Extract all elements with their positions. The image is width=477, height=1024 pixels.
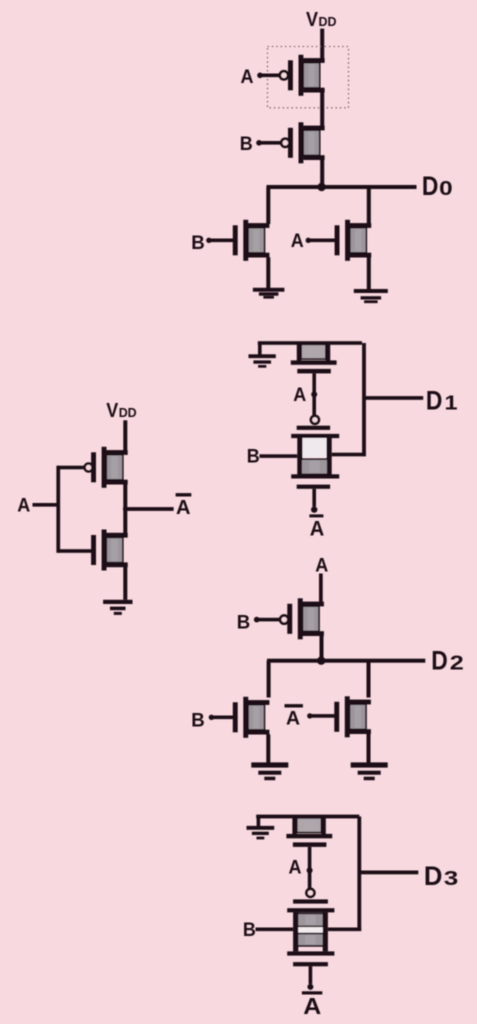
pmos gate bubble (transmission gate D1) xyxy=(311,416,319,424)
wire B to Q2 gate xyxy=(260,141,281,145)
svg-text:2: 2 xyxy=(450,653,464,675)
output label Abar xyxy=(176,497,191,519)
transmission gate TG1 right contact xyxy=(327,438,332,477)
input label B (D1) xyxy=(247,447,260,468)
ground (below Q3) xyxy=(253,288,285,299)
inverter pmos gate bubble xyxy=(85,464,93,472)
wire Q4 source to ground xyxy=(367,257,371,289)
wire A to PMOS Q8 xyxy=(319,574,323,602)
transmission gate TG2 right contact xyxy=(323,912,328,951)
wire A to Q4 gate xyxy=(309,239,335,243)
junction dot (A on D1 gate wire) xyxy=(311,391,317,397)
transmission gate TG2 top channel bar xyxy=(287,908,334,912)
power label VDD (inverter) xyxy=(106,400,137,422)
svg-text:A: A xyxy=(291,231,304,252)
svg-text:D: D xyxy=(422,171,439,201)
wire VDD to PMOS Q1 xyxy=(320,29,324,59)
svg-text:D: D xyxy=(424,861,443,891)
ground riser (D3) xyxy=(257,817,261,827)
nmos Q9 (parallel NMOS, input B) xyxy=(233,697,270,738)
wire Q6 source to ground xyxy=(123,567,127,600)
svg-text:D: D xyxy=(431,646,448,676)
wire B to Q8 gate xyxy=(258,618,280,622)
junction dot (A on D3 gate wire) xyxy=(307,867,313,873)
output label Abar overbar xyxy=(176,493,192,496)
wire Q7 gate to A xyxy=(312,373,316,415)
pmos Q8 input dot xyxy=(254,617,260,623)
output label D2 xyxy=(431,646,464,676)
wire Q2 to node D0 xyxy=(320,160,324,187)
wire input stem to NMOS gate xyxy=(58,549,93,553)
svg-text:A: A xyxy=(241,67,254,88)
nmos Q10 input label Abar xyxy=(286,708,300,729)
D3 vertical wire xyxy=(357,817,361,932)
transmission gate TG1 gray channel box xyxy=(301,459,328,474)
svg-text:V: V xyxy=(306,9,319,31)
pmos Q8 (D2, input B) xyxy=(287,598,324,639)
transmission gate TG1 top channel bar xyxy=(291,434,339,438)
svg-text:A: A xyxy=(286,708,300,729)
transmission gate TG1 bottom channel bar xyxy=(291,474,339,478)
svg-text:V: V xyxy=(106,400,119,422)
output label D0 xyxy=(422,171,453,201)
pmos gate bubble (transmission gate D3) xyxy=(306,889,314,897)
input stem (vertical) xyxy=(56,466,60,553)
transmission gate TG1 left contact xyxy=(297,438,302,477)
node D2 rail xyxy=(267,659,425,663)
pmos Q1 input label A xyxy=(241,67,254,88)
svg-text:B: B xyxy=(247,447,260,468)
wire ground to D1 pass transistor (top rail) xyxy=(258,341,362,345)
svg-text:1: 1 xyxy=(445,393,458,415)
ground riser (D1) xyxy=(258,343,262,355)
label A (D3 gate) xyxy=(289,858,302,879)
pmos Q1 (series PMOS, input A) xyxy=(288,55,325,96)
input label A (D2 top) xyxy=(315,556,328,577)
nmos Q9 input label B xyxy=(191,711,205,732)
D1 vertical wire xyxy=(362,343,366,456)
svg-text:0: 0 xyxy=(439,178,453,200)
ground (D1 top-left) xyxy=(249,354,276,367)
nmos Q4 (parallel NMOS, input A) xyxy=(335,220,372,261)
input label B (D3) xyxy=(243,920,256,941)
ground (inverter) xyxy=(103,600,132,615)
ground (below Q9) xyxy=(251,762,288,780)
output label D1 xyxy=(426,386,458,416)
ground (D3 top-left) xyxy=(247,826,275,839)
pmos Q2 input label B xyxy=(240,134,253,155)
wire Q10 source to ground xyxy=(367,734,371,763)
inverter nmos Q6 xyxy=(91,530,128,571)
pmos Q2 gate bubble xyxy=(281,139,289,147)
power label VDD (top) xyxy=(306,9,337,31)
transmission gate TG2 lower gray box xyxy=(298,934,324,946)
svg-text:DD: DD xyxy=(319,14,337,29)
label Abar overbar (D3) xyxy=(302,991,322,994)
output label D3 xyxy=(424,861,458,891)
svg-text:A: A xyxy=(293,385,306,406)
label Abar (D1) xyxy=(310,517,325,540)
terminal dot (Abar D3) xyxy=(307,984,313,990)
svg-text:3: 3 xyxy=(444,868,459,890)
label A (D1 gate) xyxy=(293,385,306,406)
wire to D3 label xyxy=(359,871,418,875)
inverter output wire xyxy=(125,507,173,511)
node tick on output xyxy=(123,507,128,512)
wire VDD to inverter PMOS xyxy=(123,420,127,450)
wire ground to D3 pass transistor (top rail) xyxy=(256,815,359,819)
wire Q8 to node D2 xyxy=(320,636,324,661)
inverter input label A xyxy=(17,496,30,517)
svg-text:B: B xyxy=(237,613,251,634)
transmission gate TG1 upper box (white) xyxy=(303,438,327,458)
wire rail to NMOS Q4 drain xyxy=(367,187,371,224)
node D0 rail xyxy=(267,185,417,189)
label Abar overbar (D1) xyxy=(309,514,323,517)
wire TG2 bottom gate to Abar xyxy=(309,966,313,984)
wire A to input stem xyxy=(33,503,61,507)
nmos Q3 (parallel NMOS, input B) xyxy=(233,220,270,261)
wire A to Q1 gate xyxy=(261,74,279,78)
nmos Q7 pass transistor (D1 top, gate A) xyxy=(291,343,337,374)
pmos Q1 input dot xyxy=(257,73,263,79)
transmission gate TG2 gap band xyxy=(298,927,322,933)
wire B to Q9 gate xyxy=(213,716,234,720)
wire rail to NMOS Q3 drain xyxy=(266,187,270,224)
transmission gate TG2 upper gray box xyxy=(298,913,324,926)
inverter pmos Q5 xyxy=(91,447,128,488)
transmission gate TG2 top gate bar xyxy=(293,899,328,903)
transmission gate TG2 bottom gate bar xyxy=(293,962,328,966)
nmos Q10 input dot xyxy=(307,713,312,718)
pmos Q8 gate bubble xyxy=(280,616,288,624)
wire B to TG2 xyxy=(256,928,294,932)
ground (below Q4) xyxy=(354,289,388,303)
svg-text:A: A xyxy=(315,556,328,577)
svg-text:B: B xyxy=(191,233,205,254)
ground (below Q10) xyxy=(351,762,388,780)
selection dotted box around PMOS Q1 xyxy=(268,47,349,108)
pmos Q8 input label B xyxy=(237,613,251,634)
nmos Q3 input label B xyxy=(191,233,205,254)
wire B to Q3 gate xyxy=(210,239,233,243)
wire TG2 to D3 riser xyxy=(328,928,361,932)
nmos Q3 input dot xyxy=(206,238,211,243)
terminal dot (Abar D1) xyxy=(311,506,317,512)
wire Q11 gate to A xyxy=(308,847,312,889)
nmos Q4 input dot xyxy=(306,238,311,243)
nmos Q9 input dot xyxy=(209,715,214,720)
wire rail to NMOS Q10 drain xyxy=(367,661,371,698)
pmos Q1 gate bubble xyxy=(280,71,288,79)
svg-text:A: A xyxy=(303,993,321,1019)
nmos Q11 pass transistor (D3 top, gate A) xyxy=(286,816,332,847)
wire to D1 label xyxy=(364,396,423,400)
svg-text:A: A xyxy=(310,517,325,540)
transmission gate TG1 top gate bar xyxy=(297,426,330,430)
nmos Q10 input label Abar overbar xyxy=(285,704,303,707)
svg-text:D: D xyxy=(426,386,443,416)
pmos Q2 (series PMOS, input B) xyxy=(288,122,325,163)
svg-text:A: A xyxy=(176,497,191,519)
svg-text:B: B xyxy=(191,711,205,732)
wire TG1 bottom gate to Abar xyxy=(312,489,316,507)
transmission gate TG2 left contact xyxy=(293,912,298,951)
wire TG1 to D1 riser xyxy=(332,453,366,457)
wire bubble to input stem xyxy=(58,466,84,470)
junction dot on D2 rail xyxy=(317,657,325,665)
wire B to TG1 xyxy=(260,454,298,458)
nmos Q10 (parallel NMOS, input Abar) xyxy=(334,696,371,737)
pmos Q2 input dot xyxy=(256,140,262,146)
svg-text:DD: DD xyxy=(119,405,137,420)
junction dot on D0 rail xyxy=(317,183,325,191)
nmos Q4 input label A xyxy=(291,231,304,252)
wire Abar to Q10 gate xyxy=(311,714,335,718)
svg-text:A: A xyxy=(289,858,302,879)
transmission gate TG2 bottom channel bar xyxy=(287,951,334,955)
label Abar (D3) xyxy=(303,993,321,1019)
svg-text:B: B xyxy=(240,134,253,155)
svg-text:A: A xyxy=(17,496,30,517)
wire Q9 source to ground xyxy=(266,734,270,762)
svg-text:B: B xyxy=(243,920,256,941)
wire Q3 source to ground xyxy=(266,257,270,288)
wire rail to NMOS Q9 drain xyxy=(267,661,271,698)
wire inverter output node xyxy=(123,484,127,533)
wire Q1 to Q2 xyxy=(320,92,324,126)
transmission gate TG1 bottom gate bar xyxy=(297,485,330,489)
